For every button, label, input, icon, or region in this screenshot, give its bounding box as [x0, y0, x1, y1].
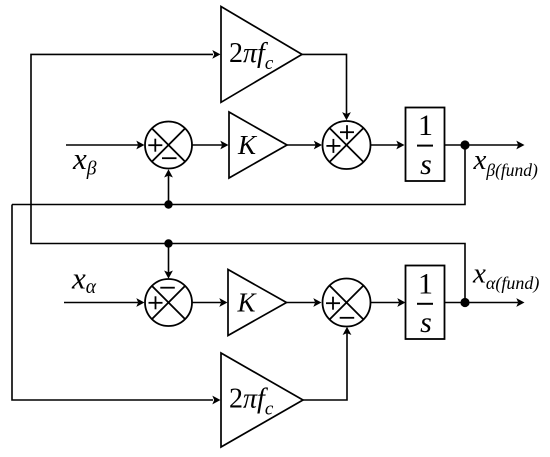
gain block 2*pi*fc top	[221, 7, 302, 103]
wire: K2 to S2a	[287, 302, 316, 304]
node: beta feedback dot on line A	[164, 200, 172, 208]
arrow into S2a from left	[313, 298, 321, 307]
node: beta output dot	[460, 140, 469, 149]
summer S2b (beta row, second)	[323, 121, 371, 169]
svg-text:1: 1	[418, 109, 433, 142]
wire: branch down from line B to summer S1a	[168, 244, 170, 274]
wire: S1b to K1	[192, 144, 222, 146]
integrator 2 label	[417, 268, 433, 340]
gain block K1	[229, 112, 287, 178]
summer S1a (alpha row, first)	[145, 279, 192, 326]
integrator box 2 (1/s alpha)	[406, 266, 445, 340]
svg-text:1: 1	[418, 268, 433, 301]
arrow into top gain	[212, 50, 220, 59]
node: alpha output dot	[460, 298, 469, 307]
wire: S2a to integrator 2	[371, 302, 400, 304]
wire: x_beta input	[66, 144, 138, 146]
arrow into S1a from top	[164, 271, 173, 279]
arrowheads	[136, 50, 524, 404]
wire: branch up from line A to summer S1b	[168, 175, 170, 205]
arrow into integrator 1	[396, 141, 404, 150]
wire: top gain output to S2b top	[302, 54, 347, 114]
arrow into S1a from left	[136, 298, 144, 307]
gain block K2	[228, 270, 287, 336]
svg-text:K: K	[237, 130, 258, 160]
arrow into K2	[219, 298, 227, 307]
integrator 1 label	[417, 109, 433, 181]
arrow into bottom gain	[212, 396, 220, 405]
arrow into S2b from left	[314, 141, 322, 150]
svg-text:s: s	[420, 148, 432, 181]
arrow into S2a from bottom	[343, 327, 352, 335]
arrow into S1b from bottom	[164, 169, 173, 177]
wire: S1a to K2	[192, 302, 221, 304]
node: alpha feedback dot on line B	[164, 239, 172, 247]
wire: alpha-fund feedback loop (node up, left, down to top gain input)	[31, 54, 465, 302]
wire: integrator 1 to output	[445, 144, 518, 146]
wire: integrator 2 to output	[444, 302, 518, 304]
arrow into S2b from top	[342, 112, 351, 120]
arrow into S1b from left	[136, 141, 144, 150]
gain block 2*pi*fc bottom	[221, 353, 303, 447]
svg-text:s: s	[420, 306, 432, 339]
arrow into integrator 2	[397, 298, 405, 307]
summer S1b (beta row, first)	[145, 122, 192, 169]
wire: beta-fund feedback (node down, left)	[12, 145, 465, 205]
integrator box 1 (1/s beta)	[406, 108, 445, 182]
summer S2a (alpha row, second)	[323, 279, 371, 327]
wire: S2b to integrator 1	[371, 144, 399, 146]
wire: x_alpha input	[64, 302, 138, 304]
wire: left down and bottom horizontal to bottom gain input	[12, 205, 213, 401]
wire: bottom gain output to S2a bottom	[303, 333, 347, 400]
arrow output alpha	[516, 298, 524, 307]
arrow output beta	[516, 141, 524, 150]
arrow into K1	[220, 141, 228, 150]
wire: K1 to S2b	[287, 144, 316, 146]
svg-text:K: K	[236, 288, 257, 318]
